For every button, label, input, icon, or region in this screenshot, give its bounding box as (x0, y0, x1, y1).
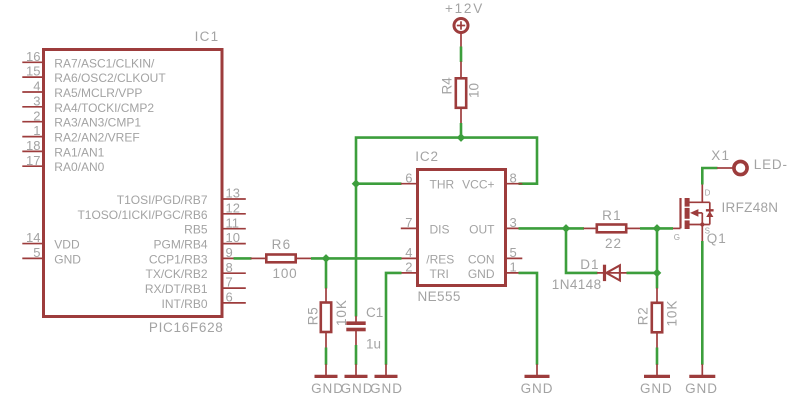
svg-text:RA6/OSC2/CLKOUT: RA6/OSC2/CLKOUT (54, 71, 166, 85)
wire R5 to GND (325, 348, 328, 365)
svg-text:RA4/TOCKI/CMP2: RA4/TOCKI/CMP2 (54, 101, 154, 115)
wire +12V to R4 (460, 47, 463, 63)
svg-text:5: 5 (510, 245, 517, 260)
svg-text:G: G (674, 233, 680, 242)
ground symbol (R2) (644, 364, 670, 376)
svg-text:TRI: TRI (430, 267, 449, 281)
R4 name label (440, 77, 455, 95)
R2 name label (635, 307, 650, 326)
IC1 value label PIC16F628 (149, 320, 224, 335)
IC2 pin 3 (OUT) (469, 215, 522, 236)
svg-text:RA5/MCLR/VPP: RA5/MCLR/VPP (54, 86, 142, 100)
svg-text:5: 5 (33, 245, 40, 260)
svg-text:GND: GND (468, 267, 495, 281)
GND label (TRI) (370, 381, 403, 396)
D1 name label (580, 257, 599, 272)
svg-text:22: 22 (605, 236, 622, 251)
svg-text:/RES: /RES (426, 252, 454, 266)
IC1 pin 14 (VDD) (22, 230, 80, 251)
svg-text:VCC+: VCC+ (462, 178, 494, 192)
wire R2 to GND (656, 348, 659, 365)
R1 name label (602, 208, 622, 223)
IC1 pin 11 (RB5) (184, 215, 246, 236)
IC1 pin 1 (RA2/AN2/VREF) (22, 123, 139, 144)
GND label (R5) (311, 381, 344, 396)
svg-text:D1: D1 (580, 257, 599, 272)
resistor R4 (456, 62, 466, 124)
svg-text:3: 3 (510, 215, 517, 230)
svg-text:IC1: IC1 (195, 29, 220, 44)
svg-text:14: 14 (26, 230, 40, 245)
svg-text:IRFZ48N: IRFZ48N (722, 200, 779, 215)
IC1 pin 5 (GND) (22, 245, 81, 266)
C1 name label (366, 305, 383, 320)
svg-text:R1: R1 (602, 208, 622, 223)
resistor R5 (321, 288, 331, 348)
svg-text:CON: CON (468, 252, 495, 266)
svg-text:RX/DT/RB1: RX/DT/RB1 (145, 282, 208, 296)
IC2 pin 4 (/RES) (401, 245, 455, 266)
resistor R2 (652, 288, 662, 348)
C1 value 1u (366, 337, 381, 352)
IC1 pin 8 (TX/CK/RB2) (145, 260, 245, 281)
svg-text:OUT: OUT (469, 222, 495, 236)
supply +12V symbol (454, 19, 468, 48)
svg-text:D: D (705, 189, 711, 198)
svg-text:13: 13 (226, 186, 240, 201)
svg-text:T1OSO/1ICKI/PGC/RB6: T1OSO/1ICKI/PGC/RB6 (77, 208, 207, 222)
GND label (C1) (341, 381, 374, 396)
svg-text:8: 8 (226, 260, 233, 275)
svg-text:RA1/AN1: RA1/AN1 (54, 145, 104, 159)
junction R6/R5//RES node (322, 254, 331, 263)
IC1 pin 18 (RA1/AN1) (22, 138, 104, 159)
transistor Q1 IRFZ48N (673, 184, 714, 242)
ground symbol (Q1 source) (689, 364, 715, 376)
svg-text:GND: GND (685, 381, 718, 396)
IC2 pin 2 (TRI) (401, 260, 449, 281)
svg-text:6: 6 (226, 290, 233, 305)
Q1 reference label (707, 231, 727, 246)
IC1 pin 10 (PGM/RB4) (153, 230, 245, 251)
junction OUT/D1 node (562, 224, 571, 233)
ground symbol (R5) (315, 364, 338, 376)
IC2 pin 8 (VCC+) (462, 170, 522, 191)
svg-text:3: 3 (33, 93, 40, 108)
R4 value 10 (467, 83, 482, 98)
wire IC1 pin 9 to R6 (234, 257, 252, 260)
svg-text:GND: GND (521, 381, 554, 396)
GND label (IC2) (521, 381, 554, 396)
IC1 pin 9 (CCP1/RB3) (149, 245, 246, 266)
svg-text:4: 4 (405, 245, 412, 260)
X1 reference label (711, 148, 730, 163)
IC2 pin 6 (THR) (401, 170, 455, 191)
IC1 pin 17 (RA0/AN0) (22, 153, 104, 174)
svg-text:C1: C1 (366, 305, 383, 320)
svg-text:7: 7 (405, 215, 412, 230)
svg-text:R5: R5 (306, 307, 321, 326)
wire IC2 pin 2 TRI to GND (386, 273, 402, 365)
GND label (R2) (640, 381, 673, 396)
svg-text:X1: X1 (711, 148, 730, 163)
svg-text:CCP1/RB3: CCP1/RB3 (149, 252, 208, 266)
connector X1 pad (717, 161, 747, 174)
wire Q1 source to GND (701, 241, 704, 365)
IC2 pin 5 (CON) (468, 245, 522, 266)
svg-text:INT/RB0: INT/RB0 (161, 297, 207, 311)
node label LED- (754, 157, 788, 172)
svg-text:7: 7 (226, 275, 233, 290)
timer IC2 NE555 body (418, 170, 506, 286)
R6 name label (272, 237, 292, 252)
IC1 pin 6 (INT/RB0) (161, 290, 245, 311)
svg-text:NE555: NE555 (418, 289, 461, 304)
svg-text:TX/CK/RB2: TX/CK/RB2 (145, 267, 207, 281)
svg-text:GND: GND (370, 381, 403, 396)
ground symbol (IC2) (525, 364, 550, 376)
svg-text:10: 10 (467, 83, 482, 98)
R5 name label (306, 307, 321, 326)
junction THR/C1 node (352, 179, 361, 188)
svg-text:R4: R4 (440, 77, 455, 95)
Q1 drain pin label D (705, 189, 711, 198)
wire OUT junction down to D1 (566, 228, 598, 273)
wire R1 to Q1 gate (640, 227, 673, 230)
svg-text:4: 4 (33, 79, 40, 94)
R1 value 22 (605, 236, 622, 251)
op-amp IC1 PIC16F628 body (44, 50, 223, 317)
GND label (Q1 source) (685, 381, 718, 396)
wire R4 bottom to VCC rail (460, 123, 463, 138)
svg-text:PIC16F628: PIC16F628 (149, 320, 224, 335)
IC1 reference label (195, 29, 220, 44)
wire D1 to R1/R2 junction (627, 272, 658, 275)
Q1 gate pin label G (674, 233, 680, 242)
IC1 pin 16 (RA7/ASC1/CLKIN/) (22, 49, 155, 70)
wire IC2 pin 3 OUT to R1 (519, 227, 585, 230)
Q1 value IRFZ48N (722, 200, 779, 215)
resistor R1 (584, 225, 641, 233)
svg-text:16: 16 (26, 49, 40, 64)
svg-text:1: 1 (510, 260, 517, 275)
wire VCC rail horizontal + to IC2 pin 8 (356, 138, 537, 317)
wire junction down to R5 (325, 258, 328, 288)
wire R6 to IC2 pin 4 (311, 257, 402, 260)
IC2 reference label (415, 149, 439, 164)
ground symbol (C1) (345, 364, 368, 376)
junction R4/VCC rail (457, 133, 466, 142)
svg-text:2: 2 (33, 108, 40, 123)
svg-text:Q1: Q1 (707, 231, 727, 246)
svg-text:10: 10 (226, 230, 240, 245)
svg-text:18: 18 (26, 138, 40, 153)
svg-text:R6: R6 (272, 237, 292, 252)
R5 value 10K (334, 299, 349, 326)
IC1 pin 12 (T1OSO/1ICKI/PGC/RB6) (77, 200, 245, 221)
svg-text:T1OSI/PGD/RB7: T1OSI/PGD/RB7 (117, 193, 208, 207)
svg-text:R2: R2 (635, 307, 650, 326)
IC1 pin 4 (RA5/MCLR/VPP) (22, 79, 142, 100)
svg-text:1N4148: 1N4148 (552, 277, 602, 292)
svg-text:11: 11 (226, 215, 240, 230)
svg-text:GND: GND (54, 252, 81, 266)
svg-text:GND: GND (311, 381, 344, 396)
svg-text:10K: 10K (664, 300, 679, 327)
+12V label (445, 1, 484, 16)
svg-text:8: 8 (510, 170, 517, 185)
resistor R6 (251, 255, 312, 263)
svg-text:9: 9 (226, 245, 233, 260)
capacitor C1 (346, 316, 365, 346)
R6 value 100 (273, 266, 298, 281)
IC1 pin 2 (RA3/AN3/CMP1) (22, 108, 141, 129)
svg-text:GND: GND (640, 381, 673, 396)
svg-text:+12V: +12V (445, 1, 484, 16)
Q1 source pin label S (705, 227, 710, 236)
IC1 pin 15 (RA6/OSC2/CLKOUT) (22, 64, 166, 85)
wire R1 right down through D1 node to R2 (656, 228, 659, 288)
IC2 pin 1 (GND) (468, 260, 522, 281)
svg-text:VDD: VDD (54, 238, 80, 252)
diode D1 1N4148 (597, 265, 627, 281)
svg-text:RA0/AN0: RA0/AN0 (54, 160, 104, 174)
svg-text:1u: 1u (366, 337, 381, 352)
svg-text:THR: THR (430, 178, 455, 192)
svg-text:IC2: IC2 (415, 149, 439, 164)
junction R1/R2/D1 node (653, 224, 662, 233)
svg-text:100: 100 (273, 266, 298, 281)
svg-text:12: 12 (226, 200, 240, 215)
svg-text:2: 2 (405, 260, 412, 275)
wire Q1 drain to X1 (702, 168, 717, 185)
wire VCC rail to IC2 pin 6 (356, 182, 402, 185)
svg-text:RA2/AN2/VREF: RA2/AN2/VREF (54, 131, 139, 145)
svg-text:RB5: RB5 (184, 223, 208, 237)
wire IC2 pin 1 to GND (519, 273, 538, 365)
svg-text:15: 15 (26, 64, 40, 79)
junction D1/R2 node (653, 269, 662, 278)
svg-text:1: 1 (33, 123, 40, 138)
svg-text:17: 17 (26, 153, 40, 168)
IC1 pin 3 (RA4/TOCKI/CMP2) (22, 93, 154, 114)
IC1 pin 13 (T1OSI/PGD/RB7) (117, 186, 246, 207)
svg-text:PGM/RB4: PGM/RB4 (153, 238, 207, 252)
wire C1 to GND (355, 345, 358, 365)
svg-text:DIS: DIS (430, 222, 450, 236)
R2 value 10K (664, 300, 679, 327)
svg-text:RA7/ASC1/CLKIN/: RA7/ASC1/CLKIN/ (54, 56, 155, 70)
D1 value 1N4148 (552, 277, 602, 292)
IC2 value label NE555 (418, 289, 461, 304)
svg-text:LED-: LED- (754, 157, 788, 172)
svg-text:GND: GND (341, 381, 374, 396)
svg-text:RA3/AN3/CMP1: RA3/AN3/CMP1 (54, 116, 141, 130)
IC2 pin 7 (DIS) (401, 215, 450, 236)
IC1 pin 7 (RX/DT/RB1) (145, 275, 246, 296)
svg-text:6: 6 (405, 170, 412, 185)
ground symbol (TRI) (375, 364, 398, 376)
